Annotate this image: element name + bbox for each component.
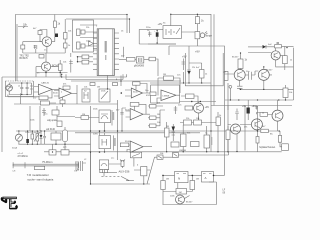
svg-text:+9V: +9V [195,50,200,54]
svg-text:f.o.: f.o. [205,133,208,135]
svg-text:gM14069: gM14069 [134,65,145,68]
svg-text:1M: 1M [97,87,100,89]
svg-text:hojttaler/horetel.: hojttaler/horetel. [259,146,276,149]
svg-text:+9V: +9V [205,106,210,109]
svg-text:AUX-536: AUX-536 [119,169,130,173]
svg-text:1M: 1M [166,126,169,128]
svg-text:1M: 1M [157,114,160,116]
svg-text:BC547b: BC547b [20,58,29,60]
svg-text:CA3140: CA3140 [41,82,50,85]
svg-text:1M: 1M [196,179,199,181]
svg-text:soche- samt bulgaria: soche- samt bulgaria [27,177,53,181]
svg-text:N: N [178,177,180,181]
svg-text:+9V: +9V [242,106,247,108]
svg-text:BC547: BC547 [266,70,273,72]
svg-text:1M: 1M [179,192,182,194]
svg-text:BC: BC [270,134,273,136]
svg-text:1N: 1N [192,67,195,69]
svg-text:+9V: +9V [158,22,163,26]
svg-text:TR1 TR2: TR1 TR2 [20,56,30,58]
svg-text:50uA: 50uA [12,147,17,150]
svg-text:udr.3140: udr.3140 [46,128,56,131]
svg-text:27x38cm: 27x38cm [18,154,29,158]
svg-text:BC557: BC557 [232,57,239,59]
svg-text:A: A [205,176,207,180]
svg-text:+9V: +9V [182,56,187,59]
svg-text:50Hz: 50Hz [93,134,98,136]
svg-text:lampe: lampe [206,35,213,38]
svg-text:BC547: BC547 [186,202,193,204]
svg-text:1M: 1M [163,74,166,76]
svg-text:1M: 1M [166,179,169,181]
svg-text:75-96cm: 75-96cm [42,160,53,164]
svg-text:LM308: LM308 [163,96,170,98]
svg-text:osc: osc [111,158,114,160]
svg-text:udg.spole: udg.spole [47,120,58,122]
